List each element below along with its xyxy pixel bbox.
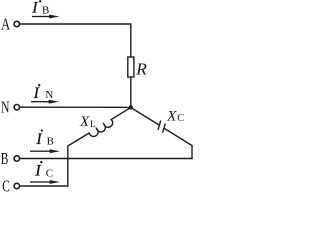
svg-text:C: C — [46, 167, 53, 179]
terminal C — [14, 183, 19, 188]
inductor X_L branch: diagonal with 3 loops — [68, 108, 131, 147]
wire N — [20, 106, 131, 108]
svg-text:I: I — [33, 85, 40, 102]
svg-text:N: N — [45, 89, 53, 101]
svg-text:C: C — [2, 177, 10, 193]
wire A horizontal — [20, 24, 131, 57]
svg-text:A: A — [1, 15, 10, 34]
svg-text:X: X — [79, 114, 90, 130]
terminal A — [14, 21, 19, 26]
resistor R — [128, 57, 134, 77]
wire resistor to node — [130, 77, 132, 108]
svg-text:L: L — [90, 119, 96, 129]
wire X_L corner down to C line — [67, 145, 69, 186]
terminal N — [14, 105, 19, 110]
svg-text:B: B — [42, 4, 49, 16]
current arrow I_B top — [32, 15, 60, 19]
current arrow I_C — [30, 180, 60, 184]
capacitor wire (plate 2 to corner) — [164, 128, 192, 158]
terminal B — [14, 156, 19, 161]
capacitor plate 2 — [163, 124, 166, 133]
capacitor plate 1 — [158, 121, 161, 130]
svg-text:I: I — [34, 162, 41, 179]
svg-text:I: I — [31, 0, 38, 17]
svg-text:X: X — [166, 108, 177, 124]
svg-text:C: C — [177, 113, 184, 124]
capacitor X_C branch wire (node to plate 1) — [131, 108, 159, 126]
svg-text:R: R — [135, 59, 147, 78]
svg-text:B: B — [47, 136, 54, 148]
wire C horizontal — [20, 185, 69, 187]
svg-text:I: I — [35, 131, 42, 148]
svg-text:B: B — [1, 149, 9, 168]
wire B (to far right) — [20, 158, 193, 160]
junction node (star point) — [129, 105, 133, 109]
current arrow I_B — [30, 149, 60, 153]
current arrow I_N — [31, 100, 59, 104]
svg-text:N: N — [1, 98, 10, 117]
